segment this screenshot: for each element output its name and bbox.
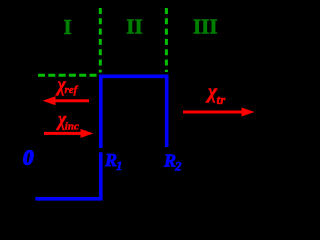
- svg-text:I: I: [64, 15, 72, 39]
- svg-text:III: III: [193, 14, 218, 38]
- svg-text:ref: ref: [65, 84, 79, 96]
- svg-text:0: 0: [23, 146, 34, 170]
- svg-text:inc: inc: [65, 121, 79, 133]
- svg-text:2: 2: [174, 159, 182, 174]
- svg-text:II: II: [126, 15, 142, 39]
- svg-text:tr: tr: [217, 92, 227, 107]
- svg-text:1: 1: [116, 158, 123, 173]
